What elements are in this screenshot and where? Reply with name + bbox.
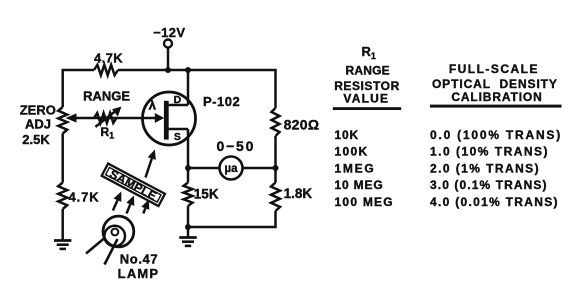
svg-text:D: D	[174, 94, 182, 106]
svg-text:FULL-SCALE: FULL-SCALE	[449, 62, 539, 76]
svg-text:1.8K: 1.8K	[284, 186, 313, 201]
svg-text:2.5K: 2.5K	[22, 132, 50, 147]
svg-text:10 MEG: 10 MEG	[335, 178, 384, 192]
svg-text:RANGE: RANGE	[83, 89, 130, 104]
svg-text:µa: µa	[224, 163, 238, 175]
svg-text:2.0 (1% TRANS): 2.0 (1% TRANS)	[430, 161, 540, 175]
svg-text:1.0 (10% TRANS): 1.0 (10% TRANS)	[430, 145, 549, 159]
svg-text:CALIBRATION: CALIBRATION	[451, 90, 542, 104]
svg-text:λ: λ	[149, 97, 157, 112]
svg-text:0−50: 0−50	[217, 138, 256, 154]
svg-text:10K: 10K	[335, 128, 360, 142]
svg-text:0.0 (100% TRANS): 0.0 (100% TRANS)	[430, 128, 562, 142]
svg-text:15K: 15K	[194, 186, 219, 201]
svg-text:3.0 (0.1% TRANS): 3.0 (0.1% TRANS)	[430, 178, 548, 192]
svg-text:100 MEG: 100 MEG	[335, 195, 394, 209]
svg-text:VALUE: VALUE	[343, 92, 389, 106]
svg-text:−12V: −12V	[153, 25, 185, 40]
svg-text:P-102: P-102	[203, 94, 240, 109]
svg-text:100K: 100K	[335, 145, 369, 159]
svg-text:ZERO: ZERO	[20, 102, 56, 117]
svg-text:4.7K: 4.7K	[69, 190, 100, 205]
svg-text:RANGE: RANGE	[345, 64, 389, 78]
svg-text:4.0 (0.01% TRANS): 4.0 (0.01% TRANS)	[430, 195, 559, 209]
svg-text:ADJ: ADJ	[25, 116, 51, 131]
svg-text:No.47: No.47	[120, 252, 158, 267]
svg-text:S: S	[174, 131, 181, 143]
svg-text:1MEG: 1MEG	[335, 161, 376, 175]
svg-text:820Ω: 820Ω	[284, 117, 320, 133]
svg-text:4.7K: 4.7K	[94, 51, 123, 66]
svg-text:LAMP: LAMP	[118, 266, 160, 281]
